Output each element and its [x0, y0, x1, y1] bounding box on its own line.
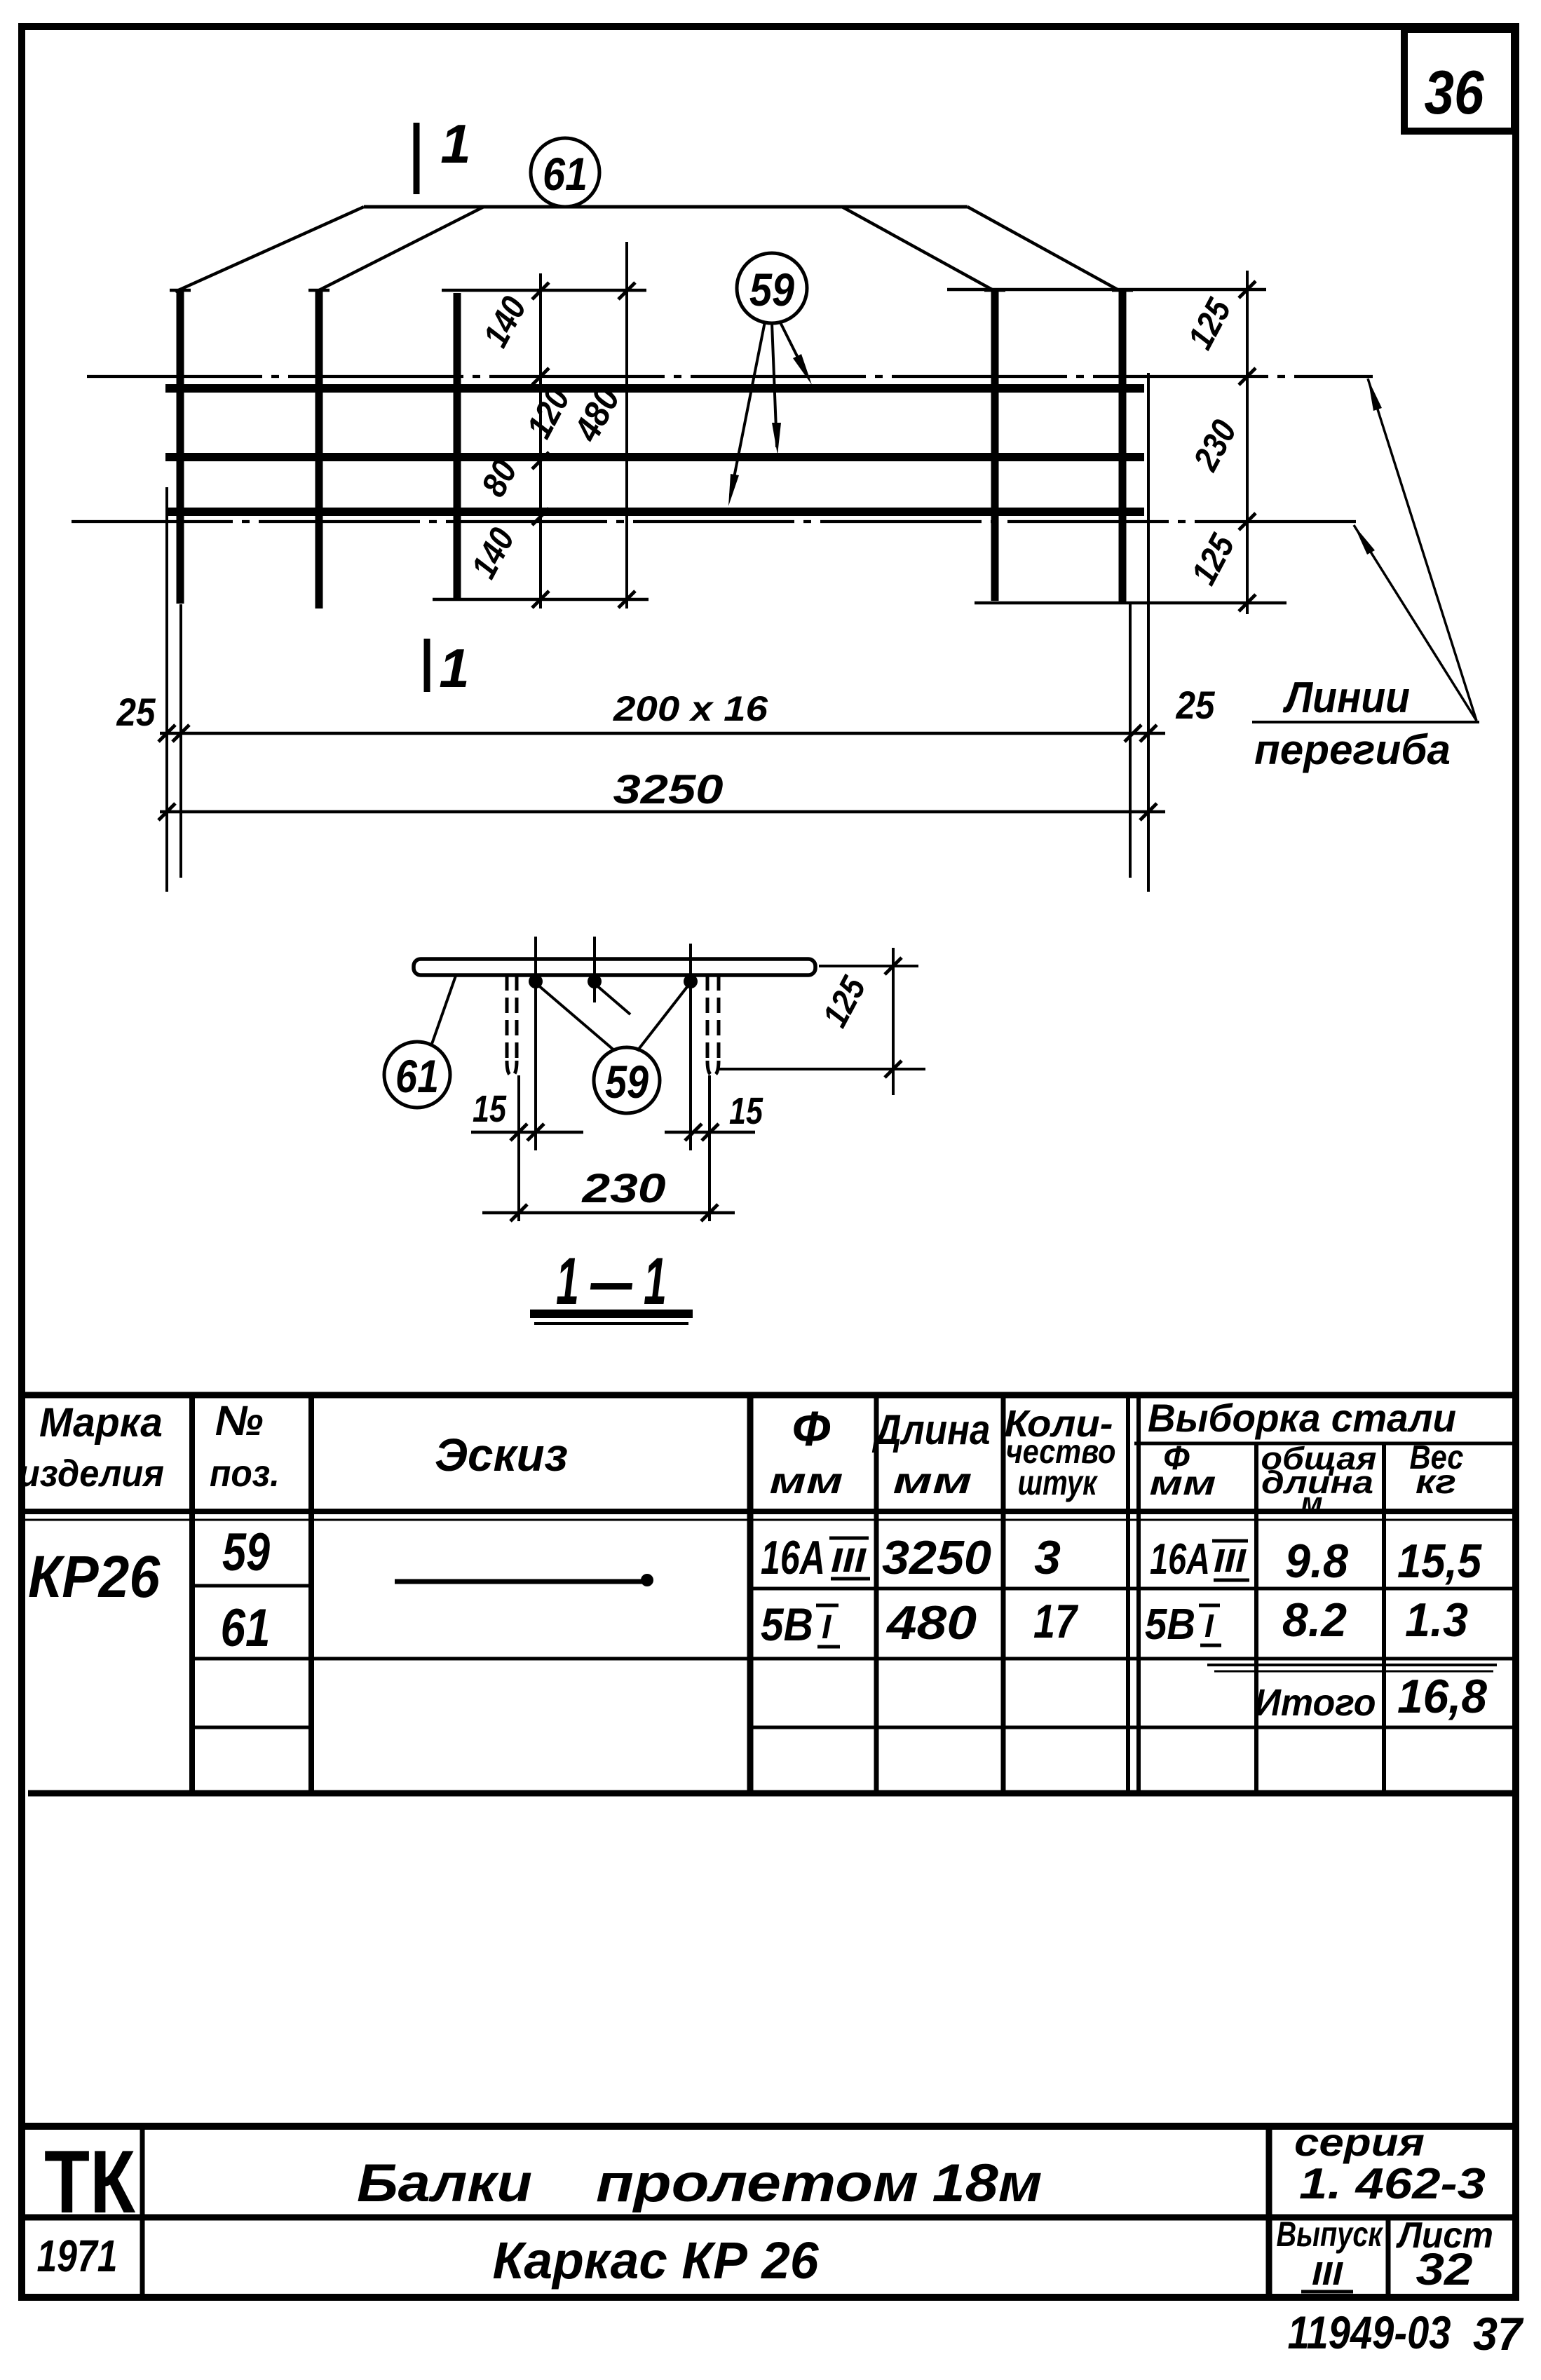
svg-text:Каркас КР 26: Каркас КР 26: [493, 2231, 820, 2290]
svg-text:Итого: Итого: [1255, 1682, 1376, 1724]
svg-text:Длина: Длина: [871, 1406, 990, 1453]
svg-text:III: III: [831, 1542, 867, 1579]
svg-text:перегиба: перегиба: [1254, 726, 1451, 773]
svg-text:18м: 18м: [932, 2154, 1043, 2213]
svg-text:15,5: 15,5: [1397, 1535, 1482, 1588]
svg-text:КР26: КР26: [28, 1544, 161, 1610]
svg-text:16А: 16А: [1150, 1535, 1210, 1584]
svg-text:15: 15: [729, 1090, 763, 1132]
svg-text:I: I: [1204, 1607, 1214, 1644]
svg-text:59: 59: [749, 264, 794, 315]
svg-text:230: 230: [581, 1166, 665, 1211]
svg-text:11949-03: 11949-03: [1288, 2306, 1451, 2358]
svg-text:ТК: ТК: [44, 2132, 135, 2231]
svg-text:1.3: 1.3: [1405, 1593, 1468, 1647]
svg-text:III: III: [1312, 2255, 1343, 2292]
svg-text:59: 59: [222, 1523, 270, 1582]
svg-text:200 x 16: 200 x 16: [613, 689, 768, 728]
svg-text:серия: серия: [1294, 2120, 1425, 2164]
svg-text:пролетом: пролетом: [596, 2154, 918, 2213]
svg-text:480: 480: [885, 1596, 977, 1650]
svg-text:мм: мм: [770, 1461, 843, 1502]
svg-text:36: 36: [1425, 57, 1485, 127]
svg-text:32: 32: [1416, 2244, 1473, 2294]
svg-text:Линии: Линии: [1282, 674, 1410, 722]
svg-text:1. 462-3: 1. 462-3: [1299, 2160, 1486, 2208]
svg-text:59: 59: [605, 1056, 649, 1108]
svg-text:Марка: Марка: [39, 1400, 163, 1446]
svg-text:25: 25: [116, 690, 156, 734]
svg-text:Ф: Ф: [792, 1401, 831, 1456]
svg-text:5В: 5В: [761, 1598, 813, 1650]
svg-text:61: 61: [543, 148, 588, 200]
svg-text:16,8: 16,8: [1397, 1670, 1487, 1723]
svg-text:1971: 1971: [37, 2231, 118, 2281]
svg-text:1: 1: [439, 637, 469, 699]
svg-text:III: III: [1214, 1542, 1247, 1579]
svg-text:16А: 16А: [761, 1531, 825, 1584]
svg-text:17: 17: [1033, 1595, 1079, 1648]
svg-text:м: м: [1301, 1486, 1322, 1519]
svg-text:мм: мм: [893, 1461, 972, 1502]
svg-text:Эскиз: Эскиз: [435, 1429, 568, 1481]
svg-text:Выпуск: Выпуск: [1277, 2215, 1384, 2254]
svg-text:№: №: [215, 1397, 264, 1444]
svg-text:Выборка стали: Выборка стали: [1148, 1396, 1456, 1440]
svg-text:61: 61: [221, 1598, 271, 1658]
svg-text:25: 25: [1176, 683, 1216, 727]
svg-text:1: 1: [440, 113, 470, 175]
svg-text:8.2: 8.2: [1282, 1593, 1347, 1647]
svg-text:I: I: [822, 1609, 832, 1646]
svg-text:3250: 3250: [882, 1531, 991, 1584]
svg-text:37: 37: [1473, 2308, 1524, 2360]
svg-text:кг: кг: [1416, 1464, 1456, 1501]
svg-text:поз.: поз.: [210, 1453, 280, 1495]
svg-text:5В: 5В: [1145, 1600, 1195, 1649]
svg-text:мм: мм: [1150, 1465, 1216, 1502]
svg-text:3250: 3250: [613, 767, 724, 812]
svg-text:3: 3: [1034, 1531, 1061, 1584]
svg-text:1 — 1: 1 — 1: [556, 1244, 667, 1319]
svg-text:штук: штук: [1018, 1463, 1099, 1502]
svg-text:Балки: Балки: [357, 2154, 532, 2213]
svg-text:61: 61: [395, 1050, 439, 1102]
svg-text:9.8: 9.8: [1285, 1535, 1348, 1588]
svg-text:15: 15: [473, 1088, 507, 1130]
svg-text:изделия: изделия: [18, 1453, 164, 1495]
